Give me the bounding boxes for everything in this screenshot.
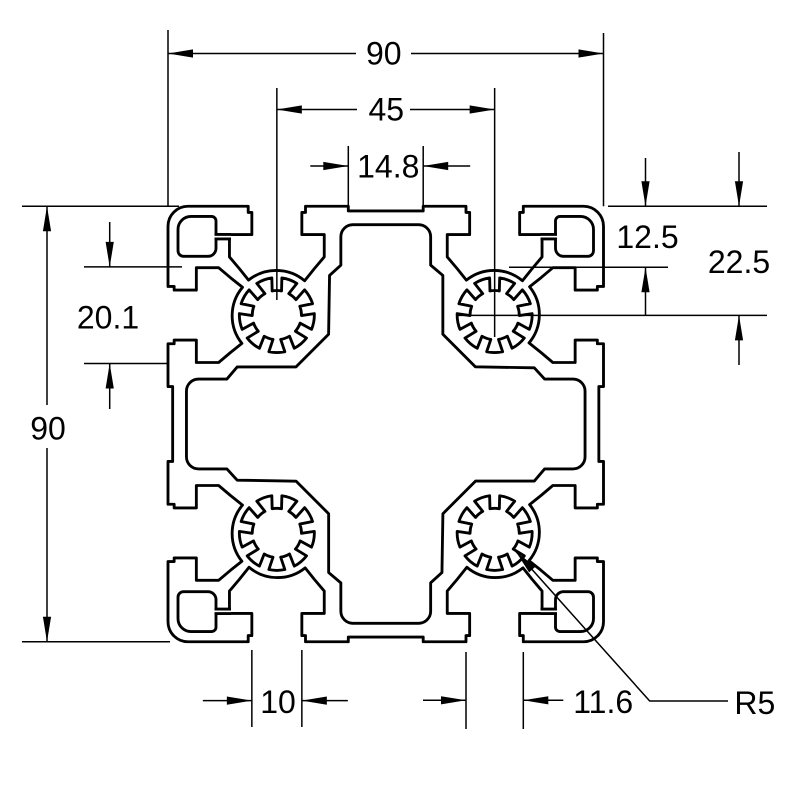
extension lines, 10 dimension xyxy=(252,650,302,727)
dimension 10 (slot opening width) xyxy=(203,684,348,720)
dimension 20.1 (slot cavity height) xyxy=(77,222,182,409)
leader R5 (gear bore radius callout) xyxy=(516,551,776,721)
svg-text:90: 90 xyxy=(366,36,402,72)
top-left corner bolt cavity xyxy=(178,216,216,256)
dimension 12.5 (slot lip depth) xyxy=(509,158,679,315)
svg-text:14.8: 14.8 xyxy=(357,149,419,185)
svg-text:R5: R5 xyxy=(734,685,775,721)
central cross cavity xyxy=(186,225,585,624)
bottom-left corner bolt cavity xyxy=(178,592,216,632)
extension lines, top 90 dimension xyxy=(168,30,604,206)
extension lines, 14.8 dimension xyxy=(348,146,423,212)
top-right gear screw boss hole xyxy=(457,278,532,353)
top-right corner cavity channel xyxy=(541,234,558,239)
dimension 14.8 (center recess width) xyxy=(310,149,470,185)
top-left corner cavity channel xyxy=(215,234,232,239)
dimension 90 (left height) xyxy=(30,206,66,642)
top-left gear screw boss hole xyxy=(239,278,314,353)
svg-text:90: 90 xyxy=(30,411,66,447)
bottom-right gear screw boss hole xyxy=(457,496,532,571)
extension lines, left 90 dimension xyxy=(22,206,179,642)
extension / center lines, 45 dimension xyxy=(277,88,495,337)
svg-text:45: 45 xyxy=(368,92,404,128)
extension line, top face edge extended right xyxy=(608,205,767,207)
bottom-right corner bolt cavity xyxy=(556,592,594,632)
svg-text:20.1: 20.1 xyxy=(77,300,139,336)
svg-text:22.5: 22.5 xyxy=(708,244,770,280)
bottom-left gear screw boss hole xyxy=(239,496,314,571)
extension lines, 11.6 dimension xyxy=(466,652,523,729)
svg-text:10: 10 xyxy=(260,684,296,720)
bottom-left corner cavity channel xyxy=(215,609,232,614)
extrusion profile outer outline with T-slots xyxy=(168,206,604,642)
dimension 11.6 (slot mouth width) xyxy=(423,684,633,720)
svg-text:12.5: 12.5 xyxy=(616,219,678,255)
svg-text:11.6: 11.6 xyxy=(573,684,633,720)
dimension 45 (slot spacing) xyxy=(277,92,495,128)
top-right corner bolt cavity xyxy=(556,216,594,256)
dimension 90 (top width) xyxy=(168,36,604,72)
bottom-right corner cavity channel xyxy=(541,609,558,614)
dimension 22.5 (gear center depth) xyxy=(458,152,770,365)
